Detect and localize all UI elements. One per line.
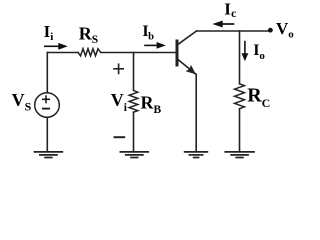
transistor Q1 base bar bbox=[176, 41, 179, 65]
svg-text:Ii: Ii bbox=[44, 22, 54, 43]
ground symbol under emitter bbox=[184, 152, 208, 158]
wire left vertical (Vs top to main node) bbox=[46, 53, 48, 93]
current arrow Ii bbox=[44, 43, 68, 50]
voltage source VS circle bbox=[35, 93, 60, 118]
svg-text:RB: RB bbox=[141, 92, 162, 116]
label plus (Vi polarity) bbox=[113, 63, 124, 74]
svg-text:Ib: Ib bbox=[142, 23, 154, 43]
svg-text:RC: RC bbox=[247, 85, 270, 110]
transistor Q1 emitter lead bbox=[178, 60, 196, 75]
svg-text:Ic: Ic bbox=[224, 0, 236, 20]
ground symbol under RC bbox=[224, 152, 254, 158]
VS source minus sign bbox=[42, 108, 50, 110]
node dot output Vo bbox=[268, 28, 273, 33]
wire RC to ground bbox=[239, 109, 241, 151]
current arrow Ic (points left) bbox=[212, 21, 234, 28]
wire below Vs to ground bbox=[46, 117, 48, 151]
resistor RB zigzag bbox=[129, 90, 138, 112]
current arrow Io (points down) bbox=[242, 41, 249, 61]
wire top-left horizontal (node to Rs) bbox=[47, 52, 78, 54]
transistor Q1 collector lead bbox=[178, 31, 196, 44]
wire RB to ground bbox=[133, 112, 135, 151]
current arrow Ib bbox=[144, 42, 166, 49]
svg-text:Io: Io bbox=[253, 42, 265, 62]
VS source plus sign bbox=[42, 95, 50, 103]
wire emitter down to ground bbox=[195, 74, 197, 151]
resistor RS zigzag bbox=[78, 49, 101, 56]
label minus (Vi polarity) bbox=[114, 136, 126, 138]
svg-text:Vo: Vo bbox=[276, 19, 294, 40]
wire collector top horizontal to output node bbox=[197, 30, 269, 32]
resistor RC zigzag bbox=[235, 84, 245, 109]
wire RC branch from top wire bbox=[239, 31, 241, 84]
wire junction down to RB bbox=[133, 53, 135, 91]
transistor Q1 emitter arrowhead bbox=[186, 65, 197, 75]
ground symbol under RB bbox=[120, 152, 150, 158]
svg-text:Vi: Vi bbox=[111, 90, 128, 114]
ground symbol under VS bbox=[34, 152, 64, 158]
wire Rs to base bbox=[101, 52, 176, 54]
svg-text:VS: VS bbox=[12, 90, 32, 114]
svg-text:RS: RS bbox=[79, 24, 98, 46]
